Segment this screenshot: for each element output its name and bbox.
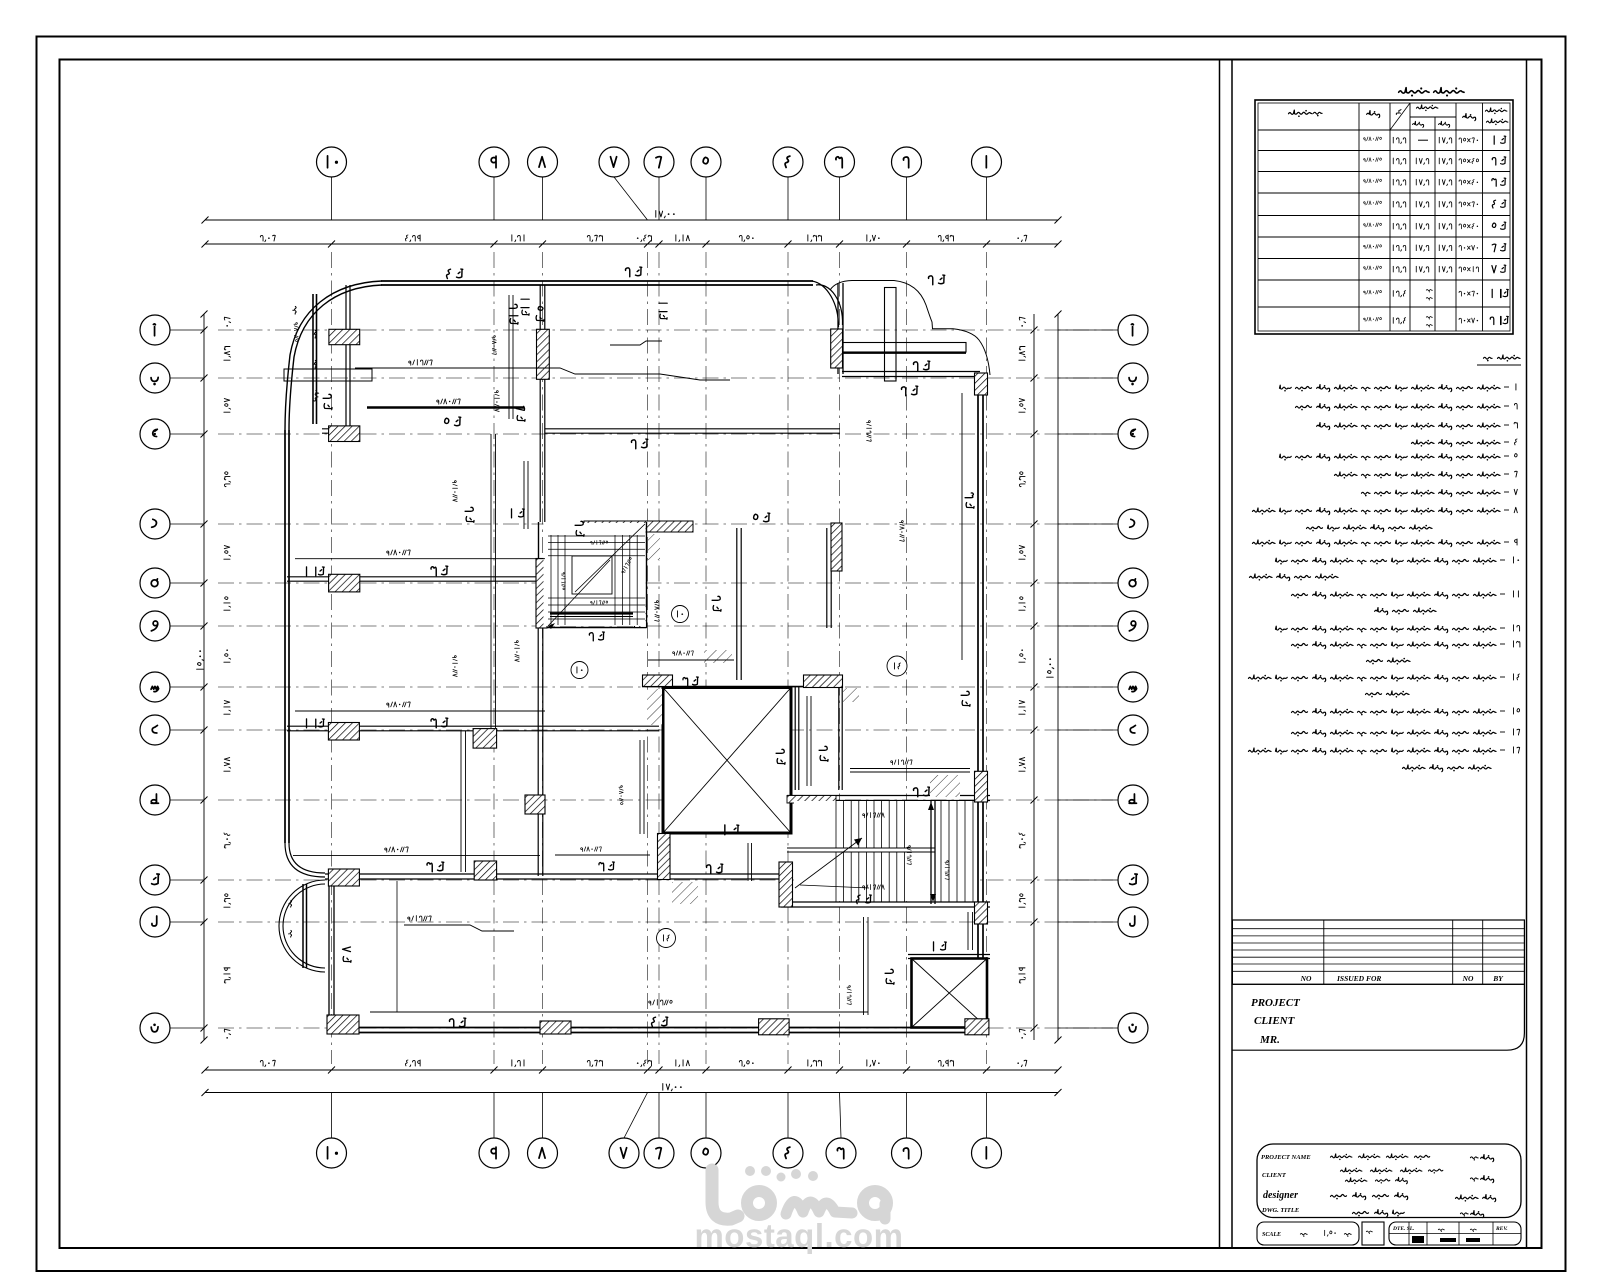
stair right flight treads [940, 801, 942, 902]
bubble leader [331, 177, 333, 220]
bubble leader [840, 1093, 842, 1139]
bubble leader [839, 177, 841, 220]
outer wall: bottom [332, 1032, 989, 1034]
wall segment below stair right [747, 843, 749, 881]
grid bubble top 9 [479, 147, 509, 177]
svg-text:ISSUED FOR: ISSUED FOR [1336, 974, 1381, 983]
hatch patch right of shaft beam [843, 688, 859, 702]
grid bubble right C [1118, 419, 1148, 449]
hatch patch right room bottom [930, 775, 960, 797]
grid bubble top 4 [773, 147, 803, 177]
table title jadwal alkamarat [1399, 87, 1464, 96]
grid line column 6 [658, 252, 660, 1064]
bubble leader [1058, 921, 1118, 923]
beam L6 [555, 854, 650, 856]
hatch patch right of court [648, 534, 660, 560]
table body rows [1494, 136, 1506, 144]
panel divider double line [1219, 60, 1221, 1249]
grid bubble left H [140, 715, 170, 745]
wall grid 8 (x=542.5) [539, 285, 541, 522]
wall grid 8 lower segment [537, 628, 539, 876]
bubble leader [906, 1093, 908, 1139]
grid bubble top 10 [317, 147, 347, 177]
bubble leader [542, 177, 544, 220]
grid bubble left N [140, 1013, 170, 1043]
bubble leader [705, 177, 707, 220]
grid bubble top 3 [825, 147, 855, 177]
bubble leader [170, 433, 204, 435]
grid bubble left S [140, 672, 170, 702]
bubble leader [331, 1093, 333, 1139]
stair BL hatched column [779, 862, 793, 907]
outer wall: right (grid 1) [977, 374, 979, 1030]
watermark mostaql logo [712, 1170, 738, 1219]
grid bubble right D [1118, 509, 1148, 539]
bottom dimension total line [205, 1092, 1058, 1094]
grid line row K [218, 879, 1113, 881]
grid line column 7 [647, 252, 649, 1064]
beam L1 row B area [355, 368, 730, 380]
table row lines [1258, 129, 1510, 131]
grid bubble bottom 5 [691, 1138, 721, 1168]
top-left balcony slab bar [284, 369, 372, 381]
left dimension values [224, 317, 230, 326]
corridor wall x=829 [826, 528, 828, 628]
bubble leader [170, 729, 204, 731]
wall row B right (y=374) [842, 376, 980, 378]
grid bubble left E [140, 568, 170, 598]
elevator shaft [663, 688, 791, 834]
shaft top hatched beam R [804, 675, 843, 688]
bubble leader [1058, 625, 1118, 627]
svg-text:SCALE: SCALE [1262, 1232, 1281, 1238]
beam L2 heavy [367, 406, 524, 408]
outer wall: top (row A area) [381, 284, 813, 286]
stair court left hatched column [536, 559, 547, 629]
grid line column 9 [493, 252, 495, 1064]
left semicircle balcony [279, 880, 325, 972]
bubble leader [787, 1093, 789, 1139]
hatched column col grid10/C [329, 426, 360, 442]
grid bubble top 8 [528, 147, 558, 177]
svg-text:MR.: MR. [1259, 1034, 1280, 1046]
grid line column 4 [787, 252, 789, 1064]
bubble leader [170, 799, 204, 801]
grid line column 8 [542, 252, 544, 1064]
stair central rail with arrows [930, 800, 932, 904]
bubble leader [170, 377, 204, 379]
bubble leader [1058, 377, 1118, 379]
hatched column grid3/D [831, 523, 842, 571]
bubble leader [658, 1093, 660, 1139]
table headers [1485, 108, 1506, 114]
table column lines [1358, 103, 1360, 331]
top wall beam labels [447, 269, 463, 278]
hatched column col bottom 2 [540, 1021, 571, 1034]
bubble leader [705, 1093, 707, 1139]
elevator X [663, 688, 791, 834]
bubble leader [787, 177, 789, 220]
bubble leader [170, 523, 204, 525]
main stair bottom wall [781, 906, 990, 908]
bubble leader [493, 1093, 495, 1139]
top-left balcony edge (heavy) [312, 294, 314, 424]
slab number 10 [571, 662, 588, 679]
grid bubble right B [1118, 363, 1148, 393]
grid line row N [218, 1027, 1113, 1029]
grid line row A [218, 329, 1113, 331]
right room beam (row W) [850, 768, 970, 770]
bubble leader [542, 1093, 544, 1139]
hatched column col bottom 3 [759, 1019, 790, 1035]
right total dim line [1057, 314, 1059, 1040]
bubble leader [493, 177, 495, 220]
hatched column col grid1/stair [975, 902, 988, 924]
stair mid landing [787, 847, 935, 849]
notes body [1515, 384, 1517, 390]
wall grid 3 upper (x=840.5) [837, 283, 839, 374]
project client box [1232, 984, 1524, 1050]
grid bubble left L [140, 907, 170, 937]
table diagonal header cell [1390, 103, 1410, 130]
wall row C middle (y=431) [545, 432, 840, 434]
bubble leader [614, 177, 648, 220]
svg-text:NO: NO [1462, 974, 1474, 983]
grid bubble right E [1118, 568, 1148, 598]
beam L7 [648, 659, 734, 661]
bubble leader [986, 177, 988, 220]
stair arrows [795, 838, 862, 888]
binding strip line [1526, 60, 1528, 1249]
grid bubble left B [140, 363, 170, 393]
second shaft (bottom) [912, 959, 988, 1028]
stair court left wall [538, 522, 540, 628]
second shaft top wall [908, 958, 990, 960]
top dimension span line [205, 243, 1058, 245]
grid line column 2 [906, 252, 908, 1064]
hatched column col grid3/A-B [831, 329, 843, 368]
main stair block top wall (row T) [787, 800, 990, 802]
grid line column 5 [705, 252, 707, 1064]
entrance canopy outline [830, 281, 990, 376]
hatched column col grid9/K [474, 861, 496, 880]
stair court BR hatched column [635, 605, 647, 628]
svg-text:designer: designer [1263, 1190, 1298, 1201]
grid bubble right T [1118, 785, 1148, 815]
wall row C left balcony room [322, 432, 360, 434]
grid bubble right K [1118, 865, 1148, 895]
hatched column col grid9/H [473, 729, 497, 749]
bubble leader [1058, 523, 1118, 525]
svg-text:CLIENT: CLIENT [1254, 1015, 1296, 1027]
hatched column col grid10/K [328, 869, 359, 886]
grid line column 3 [839, 252, 841, 1064]
grid bubble right N [1118, 1013, 1148, 1043]
beam L4 [295, 710, 545, 712]
outer wall: left [284, 430, 286, 843]
bubble leader [170, 329, 204, 331]
hatched column col grid8/A-B [537, 329, 550, 379]
stair top hatched strip [787, 796, 836, 804]
stair treads upper flight [835, 801, 837, 848]
bottom small boxes [1257, 1222, 1359, 1245]
svg-text:CLIENT: CLIENT [1262, 1172, 1287, 1179]
grid line row T [218, 799, 1113, 801]
grid line row L [218, 921, 1113, 923]
wall row H (y=728.5) [287, 730, 659, 732]
beam L5 [293, 855, 540, 857]
grid bubble top 7 [599, 147, 629, 177]
svg-text:NO: NO [1300, 974, 1312, 983]
hatched column col bottom grid1 [965, 1019, 989, 1035]
stair court heavy landing line [550, 612, 633, 614]
stair court diagonals [548, 560, 610, 626]
grid bubble top 5 [691, 147, 721, 177]
bubble leader [1058, 686, 1118, 688]
grid bubble right L [1118, 907, 1148, 937]
grid bubble bottom 6 [644, 1138, 674, 1168]
grid bubble bottom 9 [479, 1138, 509, 1168]
stair court right wall [646, 522, 648, 628]
bubble leader [986, 1093, 988, 1139]
hatch patch near L7 [704, 650, 732, 663]
wall top-left room inner (x=348) [345, 285, 347, 438]
hatched column col grid8/T [525, 795, 545, 814]
grid line row H [218, 729, 1113, 731]
grid3 wall corner fillet [812, 281, 839, 327]
room labels [323, 394, 332, 409]
grid bubble bottom 10 [317, 1138, 347, 1168]
bubble leader [624, 1093, 648, 1139]
grid line column 10 [331, 252, 333, 1064]
top dimension values [260, 235, 275, 241]
grid bubble bottom 8 [528, 1138, 558, 1168]
terrace thin line x=397 [396, 881, 398, 1012]
revision table [1232, 920, 1524, 984]
svg-text:DTE. SL.: DTE. SL. [1392, 1226, 1415, 1232]
grid bubble right H [1118, 715, 1148, 745]
bubble leader [170, 879, 204, 881]
bubble leader [1058, 433, 1118, 435]
svg-text:PROJECT NAME: PROJECT NAME [1261, 1154, 1311, 1161]
grid bubble left T [140, 785, 170, 815]
bubble leader [906, 177, 908, 220]
corridor right of shaft [794, 687, 796, 790]
canopy slab rect [842, 343, 966, 353]
hatched column col grid10/H [328, 723, 359, 741]
shaft top hatched beam L [643, 675, 673, 687]
grid line row D [218, 523, 1113, 525]
grid bubble left K [140, 865, 170, 895]
wall row K (y=876) [325, 878, 787, 880]
grid line row B [218, 377, 1113, 379]
grid bubble left C [140, 419, 170, 449]
stair court background [544, 523, 646, 626]
canopy pier rect [885, 288, 897, 382]
svg-text:BY: BY [1492, 974, 1504, 983]
hatched column col grid10/E [329, 574, 360, 592]
slab number 14 [657, 929, 676, 948]
client arabic two lines [1340, 1168, 1361, 1174]
grid bubble top 6 [644, 147, 674, 177]
bubble leader [1058, 879, 1118, 881]
grid line row E [218, 582, 1113, 584]
grid line row S [218, 686, 1113, 688]
bubble leader [1058, 329, 1118, 331]
beam L10 long bottom [370, 1011, 868, 1013]
balcony text alwy wsfly [292, 306, 296, 314]
grid bubble left A [140, 315, 170, 345]
grid line row C [218, 433, 1113, 435]
wall grid10 lower (x=331) [328, 879, 330, 1027]
right dimension values [1019, 317, 1025, 326]
grid line column 1 [986, 252, 988, 1064]
hatched column col grid10/A [329, 329, 360, 344]
vertical beam pairs left rooms [490, 434, 492, 728]
svg-text:REV.: REV. [1495, 1226, 1508, 1232]
grid bubble bottom 2 [892, 1138, 922, 1168]
right room beam vertical [961, 393, 963, 660]
hatched column col grid1/T [975, 771, 988, 802]
shaft top wall (row S) [642, 686, 843, 688]
stair treads lower flight [835, 852, 837, 902]
bubble leader [1058, 582, 1118, 584]
beam row C right jog [610, 341, 662, 345]
hatch patch left of shaft [647, 689, 662, 725]
corridor wall x=739 [736, 528, 738, 680]
grid bubble bottom 4 [773, 1138, 803, 1168]
slab number 10 [672, 606, 689, 623]
bubble leader [170, 582, 204, 584]
left dimension line [203, 314, 205, 1040]
right dimension line [1033, 314, 1035, 1040]
top dimension total line [205, 219, 1058, 221]
dwg title arabic [1353, 1211, 1369, 1216]
bubble leader [1058, 799, 1118, 801]
svg-text:mostaql.com: mostaql.com [694, 1217, 903, 1254]
title block arabic: project name [1330, 1154, 1351, 1160]
wall row E (y=579) [287, 580, 538, 582]
grid bubble top 2 [892, 147, 922, 177]
semicircle balcony edge line [302, 884, 304, 968]
bubble leader [658, 177, 660, 220]
title block rounded box [1257, 1144, 1521, 1218]
notes title mulahzat [1498, 355, 1521, 362]
stair court top hatched beam [584, 521, 693, 532]
bubble leader [170, 1027, 204, 1029]
svg-text:DWG. TITLE: DWG. TITLE [1261, 1207, 1300, 1214]
stair block background [794, 801, 975, 901]
stair court void [572, 556, 612, 594]
bubble leader [170, 921, 204, 923]
grid bubble bottom 7 [609, 1138, 639, 1168]
grid bubble right W [1118, 611, 1148, 641]
outer wall: top-left corner arc [285, 281, 382, 430]
hatched column col bottom grid10 [327, 1015, 359, 1034]
stair court bottom [539, 627, 647, 629]
outer wall: bottom-left corner arc [285, 843, 325, 877]
bottom dimension span line [205, 1069, 1058, 1071]
beam schedule table outer [1255, 100, 1513, 334]
grid bubble right A [1118, 315, 1148, 345]
grid bubble left W [140, 611, 170, 641]
hatch patch below K wall [672, 882, 698, 904]
bubble leader [170, 686, 204, 688]
bubble leader [170, 625, 204, 627]
grid line row W [218, 625, 1113, 627]
bubble leader [1058, 729, 1118, 731]
stair court treads [548, 535, 645, 537]
svg-text:PROJECT: PROJECT [1251, 997, 1301, 1009]
shaft left lower hatched column [658, 834, 671, 880]
grid bubble bottom 1 [972, 1138, 1002, 1168]
grid bubble left D [140, 509, 170, 539]
bubble leader [1058, 1027, 1118, 1029]
beam L3 [295, 558, 545, 560]
grid bubble top 1 [972, 147, 1002, 177]
canopy slab heavy line [831, 352, 966, 354]
grid bubble bottom 3 [826, 1138, 856, 1168]
beams below stair [863, 917, 865, 1015]
slab number 14 [887, 656, 907, 676]
table subheader split line [1410, 116, 1456, 118]
grid bubble right S [1118, 672, 1148, 702]
hatched column col grid1/B [975, 373, 988, 395]
designer arabic [1331, 1194, 1347, 1199]
beam L9 with jog [404, 925, 514, 931]
